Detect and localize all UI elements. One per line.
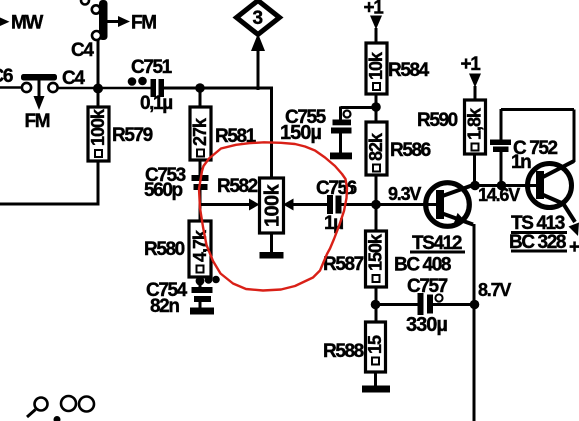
- svg-text:15: 15: [365, 335, 385, 354]
- resistor R581 27k: [190, 107, 257, 160]
- svg-text:R584: R584: [388, 60, 430, 81]
- svg-text:R586: R586: [390, 140, 431, 161]
- node collector: [470, 181, 480, 191]
- wire R590 to collector node: [473, 154, 476, 186]
- svg-text:100k: 100k: [262, 183, 284, 227]
- svg-text:100k: 100k: [88, 108, 108, 146]
- wire C756 to base: [342, 203, 438, 206]
- svg-text:27k: 27k: [190, 117, 210, 146]
- svg-text:R579: R579: [112, 125, 153, 146]
- node 8.7V: [470, 300, 480, 310]
- node base junction: [371, 200, 381, 210]
- svg-text:330µ: 330µ: [406, 314, 447, 336]
- wire arrow to FM: [107, 13, 156, 34]
- svg-text:1,8k: 1,8k: [465, 107, 485, 140]
- wire switch to junction: [97, 39, 100, 90]
- capacitor C756 1u: [316, 178, 357, 234]
- svg-text:150µ: 150µ: [280, 122, 321, 144]
- svg-text:10k: 10k: [366, 51, 386, 80]
- wire R580 to C754: [199, 277, 202, 288]
- node supply junction: [371, 102, 381, 112]
- supply +1 second: [461, 54, 482, 101]
- svg-text:MW: MW: [11, 13, 43, 34]
- svg-text:C6: C6: [0, 66, 13, 87]
- svg-text:14.6V: 14.6V: [478, 185, 520, 205]
- wire R581 to C753: [199, 160, 202, 176]
- wire wiper left: [200, 203, 250, 206]
- resistor R579 100k: [88, 107, 153, 161]
- switch contacts bottom left: [27, 396, 94, 421]
- wire node to R581: [199, 88, 202, 107]
- svg-text:150k: 150k: [366, 233, 386, 271]
- junction dots: [128, 77, 147, 86]
- resistor R580 4,7k: [144, 221, 211, 277]
- wire R586 through node to R587: [375, 175, 378, 231]
- svg-text:R588: R588: [323, 341, 364, 362]
- wire base TS413: [475, 184, 538, 187]
- svg-text:C751: C751: [131, 57, 173, 78]
- svg-text:8.7V: 8.7V: [478, 280, 511, 300]
- node below R580: [196, 276, 220, 286]
- connector diamond 3: [237, 1, 280, 52]
- red annotation circle: [199, 142, 347, 290]
- svg-text:C757: C757: [407, 276, 448, 297]
- ground below R588: [362, 372, 390, 393]
- wire left edge to contact: [0, 86, 23, 89]
- wire R584 to R586: [375, 94, 378, 122]
- resistor R587 150k: [323, 231, 387, 287]
- transistor TS412 BC408: [394, 183, 475, 276]
- wire contact to node: [57, 87, 151, 90]
- node main junction: [93, 84, 103, 94]
- label MW: [0, 13, 43, 34]
- svg-text:1n: 1n: [511, 152, 531, 173]
- wire wiper right to C756: [293, 203, 327, 206]
- svg-text:+1: +1: [461, 54, 482, 75]
- capacitor C751 0.1u: [131, 57, 173, 114]
- wire R579 down and left: [0, 161, 100, 204]
- capacitor C754 82n: [146, 280, 213, 317]
- potentiometer R582 100k: [217, 176, 294, 233]
- svg-text:R590: R590: [417, 110, 458, 131]
- node at R581 top: [195, 83, 205, 93]
- svg-text:82n: 82n: [150, 296, 179, 317]
- wire to C755: [341, 107, 377, 121]
- wire C751 to R582 top corner: [164, 88, 273, 178]
- svg-text:560p: 560p: [144, 180, 183, 201]
- svg-text:FM: FM: [131, 13, 156, 34]
- transistor TS413 BC328: [509, 161, 579, 253]
- wire feedback top: [501, 110, 574, 163]
- svg-text:3: 3: [253, 8, 263, 29]
- ground below R582: [260, 233, 284, 259]
- svg-text:0,1µ: 0,1µ: [140, 93, 172, 114]
- svg-text:9.3V: 9.3V: [388, 184, 421, 204]
- supply +1: [364, 0, 385, 44]
- svg-text:C4: C4: [71, 40, 94, 61]
- ground below C754: [190, 302, 214, 315]
- svg-text:R587: R587: [323, 254, 364, 275]
- resistor R586 82k: [366, 122, 431, 175]
- wire R579 branch: [97, 88, 100, 107]
- capacitor C753 560p: [144, 165, 209, 201]
- wire diamond down to bus: [257, 51, 260, 90]
- resistor R584 10k: [366, 43, 430, 94]
- capacitor C757 330u: [376, 276, 475, 336]
- resistor R590 1,8k: [417, 100, 486, 154]
- switch S-FM upper lever: [81, 0, 108, 40]
- svg-text:R580: R580: [144, 239, 185, 260]
- wire R587 to R588: [375, 287, 378, 322]
- wire emitter down: [473, 224, 476, 421]
- capacitor C755 150u: [280, 107, 352, 159]
- svg-text:C4: C4: [62, 68, 85, 89]
- wire C753 to R580: [199, 190, 202, 221]
- svg-text:TS 413: TS 413: [511, 213, 565, 234]
- svg-text:BC 408: BC 408: [394, 255, 451, 276]
- resistor R588 15: [323, 322, 386, 372]
- capacitor C752 1n: [490, 109, 558, 186]
- arrow to FM below: [25, 80, 50, 132]
- svg-text:FM: FM: [25, 111, 50, 132]
- svg-text:82k: 82k: [366, 132, 386, 161]
- node emitter divider: [371, 300, 381, 310]
- svg-text:R582: R582: [217, 176, 258, 197]
- switch S-FM lower lever: [21, 74, 58, 92]
- node C752 bottom: [497, 181, 507, 191]
- svg-text:+: +: [569, 237, 579, 258]
